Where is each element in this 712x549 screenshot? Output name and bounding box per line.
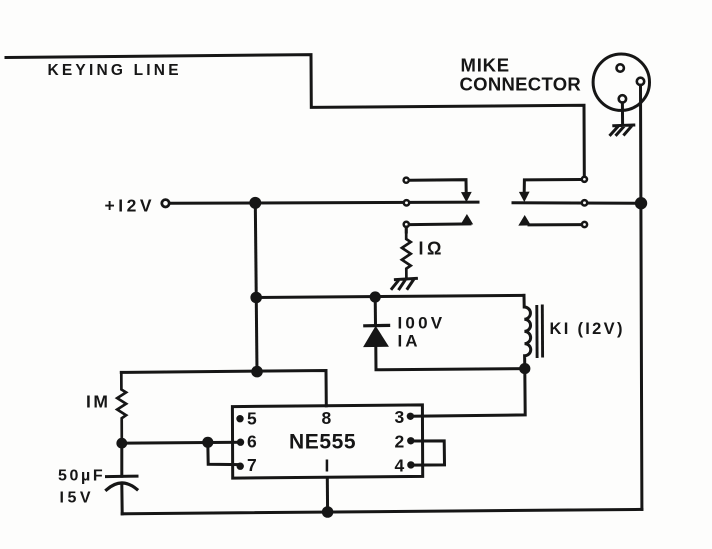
wire: diode anode down and right to relay coil bottom: [376, 346, 525, 370]
wire: coil bottom down and left to NE555 pin 3: [411, 369, 525, 417]
junction: pin 1 / bottom rail: [322, 506, 334, 518]
relay contact A upper terminal (node): [404, 178, 409, 183]
relay contact B lower terminal (node): [582, 222, 587, 227]
diode CR1 cathode bar: [365, 324, 389, 328]
resistor R1 (1 ohm) zigzag: [402, 227, 411, 279]
svg-text:IA: IA: [398, 332, 421, 351]
pin 4 dot: [407, 461, 414, 468]
wire: row to NE555 pin 6: [122, 441, 240, 445]
node: +12V input terminal: [162, 200, 169, 207]
relay contact A common terminal (node on +12V rail): [404, 200, 409, 205]
svg-text:+I2V: +I2V: [105, 196, 156, 216]
svg-text:4: 4: [395, 456, 405, 476]
junction: +12V rail / vertical feed: [249, 197, 261, 209]
svg-text:KI (I2V): KI (I2V): [550, 320, 625, 338]
diode CR1 triangle (anode, pointing up): [364, 327, 387, 346]
wire: J1 bottom pin to ground: [621, 103, 624, 125]
junction: feed / top row: [251, 366, 263, 378]
svg-text:IΩ: IΩ: [419, 239, 445, 259]
capacitor C1 curved plate: [107, 483, 137, 490]
svg-text:7: 7: [247, 455, 257, 475]
wire: contact B lower line: [529, 223, 580, 226]
svg-text:KEYING LINE: KEYING LINE: [48, 62, 182, 79]
relay K1 core bar 1: [535, 307, 538, 357]
junction: contact B common / right bus: [635, 197, 647, 209]
relay contact B lower arrow (up): [519, 216, 530, 225]
wire: contact B common line to right bus: [513, 201, 635, 204]
ground (mike connector): [611, 125, 634, 135]
junction: diode top: [370, 291, 381, 302]
pin 7 dot: [237, 463, 244, 470]
pin 3 dot: [407, 413, 414, 420]
pin 2 dot: [407, 437, 414, 444]
wire: pin 2 to pin 4 jumper: [412, 441, 445, 465]
svg-text:50µF: 50µF: [58, 467, 105, 484]
wire: contact A lower terminal down to resistor R1: [405, 227, 408, 232]
connector J1 pin right: [637, 78, 644, 85]
connector J1 pin bottom: [619, 95, 626, 102]
ground (below R1): [392, 278, 417, 288]
svg-text:2: 2: [395, 432, 405, 452]
wire: contact A lower terminal line: [411, 222, 470, 226]
junction: R2 bottom / C1 top / pin 6 row: [116, 438, 127, 449]
wire: J1 right pin down right side to bottom rail: [641, 85, 642, 509]
svg-text:I00V: I00V: [398, 314, 446, 333]
svg-text:IM: IM: [86, 391, 110, 411]
wire: contact A upper terminal to wiper arrow: [411, 180, 466, 193]
svg-text:3: 3: [395, 407, 405, 427]
connector J1 shell: [593, 54, 649, 110]
relay K1 core bar 2: [541, 306, 544, 356]
IC U1 NE555 body: [232, 405, 422, 478]
svg-text:NE555: NE555: [289, 431, 356, 454]
wire: NE555 pin 1 down to bottom rail: [326, 478, 329, 512]
relay coil K1: [524, 295, 531, 368]
svg-text:8: 8: [322, 408, 332, 428]
connector J1 pin top: [617, 64, 624, 71]
resistor R2 (1M) zigzag: [117, 372, 126, 443]
svg-text:I: I: [325, 456, 330, 476]
wire: vertical feed from +12V rail down: [255, 203, 257, 372]
svg-text:I5V: I5V: [60, 490, 95, 507]
junction: coil bottom / diode / feed to pin 3: [519, 363, 530, 374]
wire: relay-diode top row: [256, 295, 524, 297]
relay contact A lower arrow (up): [461, 215, 472, 224]
wire: keying line run from left edge to relay contact: [6, 55, 584, 175]
wire: contact B upper terminal to wiper arrow: [524, 180, 580, 193]
wire: bottom rail: [122, 509, 642, 513]
relay contact A lower terminal (node): [404, 222, 409, 227]
junction: feed / relay-diode row: [250, 292, 262, 304]
wire: NE555 top row (1M top to pin 8): [121, 371, 326, 406]
relay contact B upper terminal (node, from keying line): [582, 177, 587, 182]
relay contact A wiper arrow (down): [462, 192, 471, 201]
diode CR1 lead from top junction: [374, 297, 377, 325]
capacitor C1 lead from junction: [120, 443, 123, 476]
wire: branch down to NE555 pin 7: [208, 442, 240, 464]
capacitor C1 top plate: [107, 475, 138, 479]
wire: +12V rail to relay contact A common: [171, 202, 479, 203]
pin 6 dot: [237, 439, 244, 446]
pin 5 dot: [236, 415, 243, 422]
wire: C1 bottom to bottom rail: [120, 484, 123, 514]
svg-text:5: 5: [247, 409, 257, 429]
relay contact B common terminal (node): [582, 200, 587, 205]
junction: pin6/pin7 branch: [202, 437, 213, 448]
svg-text:CONNECTOR: CONNECTOR: [460, 73, 582, 94]
relay contact B wiper arrow (down): [520, 192, 529, 201]
svg-text:6: 6: [247, 431, 257, 451]
